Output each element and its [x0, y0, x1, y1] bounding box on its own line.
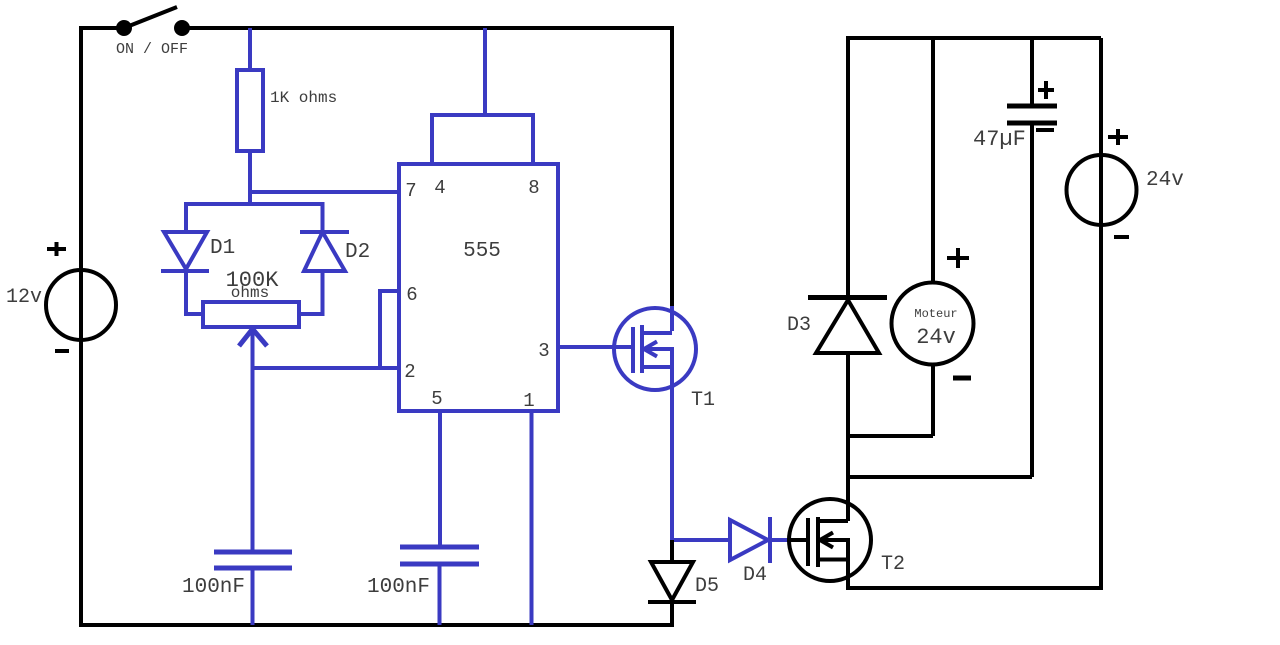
capacitor C3 47uF [973, 81, 1057, 152]
wire V2 bottom down [1099, 225, 1103, 590]
svg-text:8: 8 [528, 177, 539, 199]
diode D2 [300, 202, 370, 271]
wire motor top [931, 38, 935, 283]
wire wiper stem [251, 329, 255, 370]
wire top rail right [846, 36, 1101, 40]
wire 555 top supply [483, 28, 487, 115]
svg-text:24v: 24v [1146, 169, 1184, 192]
svg-text:1: 1 [523, 390, 534, 412]
source V1 12v [6, 242, 116, 351]
wire pin6 bump [380, 291, 399, 368]
motor M1 Moteur 24v [892, 248, 974, 365]
wire top-left rail [79, 26, 124, 30]
wire 555 staple pins 4-8 [432, 115, 533, 164]
switch S1 ON/OFF [116, 7, 190, 58]
wire R1 bottom down [248, 151, 252, 206]
wire T1 source down [670, 390, 674, 542]
diode D3 [787, 298, 887, 354]
svg-text:47µF: 47µF [973, 127, 1026, 152]
svg-text:ohms: ohms [231, 284, 269, 302]
wire bottom right rail [848, 586, 1103, 590]
svg-text:D2: D2 [345, 241, 370, 264]
svg-text:24v: 24v [916, 325, 956, 350]
wire rail to C3 [1030, 38, 1034, 106]
wire rail to D3 [846, 38, 850, 297]
potentiometer R2 100K ohms [203, 268, 299, 346]
wire D4 to T2 gate [770, 538, 790, 542]
wire pin2 horizontal [253, 366, 400, 370]
wire C1 to bottom rail [251, 568, 255, 625]
svg-text:D3: D3 [787, 314, 811, 337]
wire motor to D3 node [846, 434, 933, 438]
wire pin7 horizontal [250, 190, 399, 194]
svg-text:D5: D5 [695, 575, 719, 598]
svg-text:D1: D1 [210, 237, 235, 260]
transistor T1 [614, 306, 715, 412]
wire top rail to corner [182, 26, 674, 30]
transistor T2 [787, 499, 905, 590]
diode D1 [161, 202, 235, 271]
svg-text:7: 7 [405, 180, 416, 202]
svg-text:T2: T2 [881, 553, 905, 576]
svg-text:5: 5 [431, 388, 442, 410]
svg-text:100nF: 100nF [367, 576, 430, 599]
motor minus [953, 376, 971, 381]
wire D3 down to T2 drain [846, 353, 850, 502]
wire stem to C1 [251, 368, 255, 552]
svg-text:D4: D4 [743, 564, 767, 587]
svg-text:ON / OFF: ON / OFF [116, 41, 188, 58]
wire loop top [186, 202, 323, 206]
wire C3 down [1030, 122, 1034, 477]
svg-text:T1: T1 [691, 389, 715, 412]
wire left vertical [79, 26, 83, 627]
svg-text:6: 6 [406, 284, 417, 306]
svg-text:4: 4 [434, 177, 445, 199]
diode D5 [648, 540, 719, 625]
wire D2 to pot [299, 271, 323, 314]
wire pin3 to gate [558, 345, 633, 349]
svg-text:Moteur: Moteur [914, 307, 957, 321]
resistor R1 1K ohms [237, 70, 337, 151]
capacitor C1 100nF [182, 552, 292, 599]
wire top-right corner down to T1 drain [670, 26, 674, 306]
wire pin5 down [438, 411, 442, 547]
wire D1 to pot [186, 271, 204, 314]
wire rail to V2 [1099, 38, 1103, 590]
wire motor bottom [931, 364, 935, 436]
svg-text:555: 555 [463, 240, 501, 263]
diode D4 [730, 517, 770, 587]
capacitor C2 100nF [367, 547, 479, 599]
IC U1 555 [399, 164, 558, 412]
wire blue rail to R1 [248, 28, 252, 70]
wire C2 to bottom rail [438, 564, 442, 625]
wire to D4 [672, 538, 730, 542]
svg-text:2: 2 [404, 361, 415, 383]
svg-text:12v: 12v [6, 286, 42, 309]
source V2 24v [1067, 129, 1184, 237]
wire C3 to D3 node [846, 475, 1032, 479]
svg-text:100nF: 100nF [182, 576, 245, 599]
svg-text:1K ohms: 1K ohms [270, 89, 337, 107]
wire pin1 down [530, 411, 534, 625]
svg-text:3: 3 [538, 340, 549, 362]
wire bottom rail [79, 623, 674, 627]
